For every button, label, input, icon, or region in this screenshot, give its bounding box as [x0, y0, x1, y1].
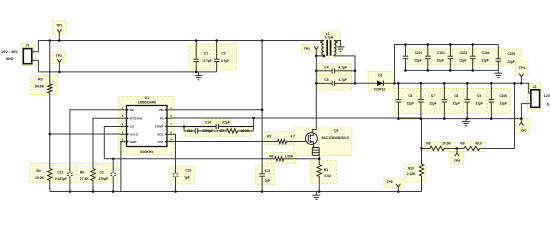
svg-text:TP6: TP6	[386, 180, 392, 184]
junction UVLO divider node	[49, 133, 52, 136]
junction C2 top	[215, 39, 218, 42]
highlight box TP5	[450, 152, 464, 164]
svg-text:R3: R3	[269, 154, 273, 158]
Q1 source pin ladder	[312, 144, 319, 159]
capacitor C14 32pF	[184, 124, 254, 129]
wire bottom ground bus	[50, 191, 422, 193]
pin stub U1 COMP	[167, 126, 174, 128]
junction C102 bottom	[427, 69, 430, 72]
wire row2 ground stem	[465, 119, 467, 122]
test point TP1	[57, 29, 61, 32]
capacitor C1 4.7uF	[193, 41, 199, 72]
svg-text:VIN: VIN	[159, 108, 164, 112]
connector J1	[23, 49, 32, 64]
capacitor C9 22uF	[464, 83, 470, 118]
highlight box C103	[453, 49, 475, 65]
svg-text:10: 10	[170, 138, 173, 142]
svg-text:R6: R6	[80, 171, 84, 175]
svg-text:C13: C13	[187, 129, 193, 133]
pin marker U1 VCC	[164, 133, 167, 136]
junction TP4	[520, 82, 523, 85]
highlight box D1	[368, 71, 394, 91]
svg-text:10V - 48V: 10V - 48V	[1, 50, 18, 54]
svg-text:J2: J2	[533, 85, 537, 89]
test point TP7	[519, 122, 523, 125]
resistor R5 64.9K	[48, 41, 52, 135]
wire input ground stem	[198, 72, 200, 76]
test point TP3	[314, 46, 318, 49]
junction C102 top	[427, 43, 430, 46]
wire RT/SYNC to R6	[93, 118, 120, 168]
capacitor C103 22uF	[448, 45, 454, 71]
junction C100 bottom	[490, 117, 493, 120]
svg-text:64.9K: 64.9K	[35, 85, 45, 89]
wire J1 pin2 to ground rail	[32, 60, 39, 72]
svg-text:CS: CS	[130, 125, 134, 129]
svg-text:C101: C101	[415, 51, 423, 55]
ground at row2	[462, 121, 470, 125]
svg-text:270pF: 270pF	[99, 177, 109, 181]
wire L1 secondary top to ground	[334, 41, 341, 47]
pin stub U1 GND	[120, 141, 127, 143]
capacitor C100 22uF	[489, 83, 495, 118]
wire Vout to J2 pin1	[521, 83, 531, 93]
pin stub U1 SS	[120, 109, 127, 111]
highlight box C3	[97, 164, 118, 183]
highlight box R5	[31, 75, 58, 94]
pin marker U1 UVLO	[127, 133, 130, 136]
svg-text:R10: R10	[408, 167, 414, 171]
svg-text:TP7: TP7	[521, 129, 527, 133]
highlight box C9	[463, 89, 486, 114]
svg-text:4.7µF: 4.7µF	[339, 78, 348, 82]
svg-text:C6: C6	[408, 94, 412, 98]
capacitor C11 1uF on VIN bypass line	[259, 41, 265, 192]
test point TP4	[519, 74, 523, 77]
svg-text:22µF: 22µF	[459, 58, 466, 62]
svg-text:22µF: 22µF	[414, 58, 421, 62]
resistor R10 2.32K	[419, 148, 423, 191]
highlight box TP1	[53, 21, 67, 35]
junction bus x=262.1	[261, 190, 264, 193]
svg-text:C11: C11	[265, 169, 271, 173]
highlight box TP3	[302, 45, 318, 53]
wire output top rail riser	[395, 45, 499, 84]
junction FB divider	[420, 147, 423, 150]
resistor R3 1.00K	[267, 157, 319, 161]
highlight box J1	[22, 44, 35, 66]
svg-text:C103: C103	[459, 51, 467, 55]
svg-text:22µF: 22µF	[482, 58, 489, 62]
svg-text:VCC: VCC	[157, 133, 164, 137]
highlight box C7	[417, 89, 440, 114]
wire TP2 stem	[58, 62, 60, 72]
svg-text:20.0K: 20.0K	[241, 129, 250, 133]
svg-text:TP3: TP3	[304, 47, 310, 51]
wire U1 GND pin to bus	[119, 142, 122, 192]
inductor L1 4.7uH coupled	[322, 41, 324, 55]
svg-text:C10: C10	[185, 169, 191, 173]
junction L1 primary bottom	[323, 55, 326, 58]
svg-text:22µF: 22µF	[437, 58, 444, 62]
svg-text:22µF: 22µF	[500, 102, 507, 106]
junction C101 bottom	[404, 69, 407, 72]
connector J2	[531, 90, 540, 108]
ground at row1	[494, 73, 502, 77]
highlight box TP4	[516, 61, 529, 75]
junction bus x=93.0	[92, 190, 95, 193]
pin marker U1 VIN	[164, 109, 167, 112]
wire L1 secondary bottom to node B	[334, 55, 355, 83]
capacitor C13 4700pF	[184, 128, 222, 133]
svg-text:C7: C7	[431, 94, 435, 98]
svg-text:V10P10: V10P10	[374, 88, 386, 92]
junction TP2 on ground rail	[58, 71, 61, 74]
svg-text:4700pF: 4700pF	[202, 129, 213, 133]
svg-text:TP2: TP2	[56, 54, 62, 58]
test point TP5	[455, 153, 459, 156]
highlight box C105	[501, 49, 522, 65]
junction C4 right	[354, 70, 357, 73]
resistor R9 49.9	[457, 146, 515, 150]
highlight box R10	[404, 165, 425, 182]
svg-text:J1: J1	[26, 44, 30, 48]
wire switch node to Q1 drain	[312, 56, 316, 133]
svg-text:4.7µH: 4.7µH	[325, 36, 334, 40]
svg-text:R4: R4	[36, 169, 40, 173]
test point TP2	[57, 59, 61, 62]
svg-text:COMP: COMP	[155, 125, 164, 129]
svg-text:2.32K: 2.32K	[407, 172, 416, 176]
pin marker U1 RT/SYNC	[127, 117, 130, 120]
junction VIN riser	[261, 109, 264, 112]
junction C4 left	[315, 70, 318, 73]
pin stub U1 OUT	[167, 141, 174, 143]
svg-text:TP4: TP4	[519, 66, 525, 70]
transistor Q1 BSC123N08NS3 G	[306, 133, 318, 145]
svg-text:LM5022MM: LM5022MM	[138, 100, 156, 104]
pin marker U1 CS	[127, 125, 130, 128]
svg-text:4.7µF: 4.7µF	[221, 59, 230, 63]
highlight box R7	[217, 128, 251, 137]
capacitor C5 4.7uF	[316, 81, 355, 86]
wire C3 to bus	[112, 159, 114, 192]
svg-text:4.7µF: 4.7µF	[339, 65, 348, 69]
svg-text:C9: C9	[477, 94, 481, 98]
capacitor C104 22uF	[470, 45, 476, 71]
svg-text:32pF: 32pF	[222, 121, 230, 125]
junction Q1 source R1	[318, 158, 321, 161]
svg-text:C2: C2	[221, 51, 225, 55]
pin stub U1 CS	[120, 126, 127, 128]
junction C103 bottom	[449, 69, 452, 72]
highlight box C14	[203, 120, 231, 128]
svg-text:22µF: 22µF	[476, 102, 483, 106]
wire output ground rail	[398, 118, 521, 120]
highlight box C5	[318, 76, 352, 90]
svg-text:TP5: TP5	[454, 159, 460, 163]
highlight box C11	[255, 165, 274, 184]
junction C101 top	[404, 43, 407, 46]
svg-text:GND: GND	[6, 57, 14, 61]
svg-text:1µF: 1µF	[184, 176, 190, 180]
wire VIN pin to riser	[174, 109, 262, 111]
highlight box C104	[475, 49, 497, 65]
capacitor C7 22uF	[418, 83, 424, 118]
junction J2 ground	[520, 117, 523, 120]
junction R9 output rail	[513, 82, 516, 85]
svg-text:20.0K: 20.0K	[442, 141, 451, 145]
resistor R8 20.0K	[422, 146, 458, 150]
svg-text:C100: C100	[499, 94, 507, 98]
svg-text:C14: C14	[205, 121, 211, 125]
wire TP4 stem	[520, 77, 522, 84]
svg-text:0.02: 0.02	[324, 174, 331, 178]
svg-text:R7: R7	[220, 129, 224, 133]
junction C9 bottom	[466, 117, 469, 120]
junction bus x=175.5	[174, 190, 177, 193]
svg-text:R8: R8	[426, 142, 430, 146]
highlight box C100	[487, 89, 510, 114]
svg-text:D1: D1	[378, 73, 382, 77]
highlight box C6	[394, 89, 417, 114]
svg-text:R9: R9	[460, 142, 464, 146]
svg-text:10.0K: 10.0K	[35, 176, 45, 180]
highlight box TP6	[384, 178, 403, 188]
junction TP3 switch node	[315, 55, 318, 58]
svg-text:C105: C105	[507, 52, 515, 56]
svg-text:UVLO: UVLO	[130, 133, 139, 137]
wire input top rail	[38, 40, 324, 42]
junction C104 bottom	[471, 69, 474, 72]
capacitor C8 22uF	[442, 83, 448, 118]
svg-text:OUT: OUT	[157, 140, 163, 144]
highlight box U1	[119, 96, 175, 154]
highlight box TP2	[53, 52, 67, 64]
svg-text:R1: R1	[324, 168, 328, 172]
junction C100 top	[490, 82, 493, 85]
capacitor C105 22uF	[496, 45, 502, 71]
pin marker U1 SS	[127, 109, 130, 112]
pin marker U1 FB	[164, 117, 167, 120]
wire output rail	[395, 82, 522, 84]
junction TP1 on top rail	[58, 39, 61, 42]
highlight box C10	[170, 166, 195, 184]
wire TP7 stem	[520, 119, 522, 123]
svg-text:G: G	[547, 103, 550, 107]
svg-text:C4: C4	[324, 65, 328, 69]
resistor R6 27.4K	[91, 169, 95, 192]
svg-text:C5: C5	[324, 78, 328, 82]
svg-text:FB: FB	[160, 116, 164, 120]
ground at bus	[312, 195, 320, 199]
highlight box R3	[266, 153, 296, 164]
svg-text:22µF: 22µF	[429, 102, 436, 106]
capacitor C3 270pF	[110, 173, 116, 175]
pin stub U1 FB	[167, 117, 174, 119]
capacitor C102 22uF	[425, 45, 431, 71]
pin stub U1 UVLO	[120, 133, 127, 135]
junction FB compensation	[252, 117, 255, 120]
svg-text:C8: C8	[454, 94, 458, 98]
pin stub U1 VCC	[167, 133, 174, 135]
wire TP3 stem	[315, 49, 317, 56]
diode D1 V10P10	[377, 81, 383, 87]
junction R5 on top rail	[49, 39, 52, 42]
highlight box TP7	[516, 119, 530, 134]
resistor R2 4.7 gate	[174, 139, 306, 143]
junction bus x=398.3	[397, 190, 400, 193]
highlight box C8	[440, 89, 463, 114]
svg-text:22µF: 22µF	[507, 60, 514, 64]
wire comp network to FB	[253, 118, 255, 131]
highlight box R2	[265, 132, 298, 145]
svg-text:0.047µF: 0.047µF	[55, 177, 67, 181]
highlight box R6	[76, 164, 95, 183]
highlight box R8	[424, 142, 455, 151]
capacitor C10 1uF	[173, 174, 179, 176]
svg-text:TP1: TP1	[56, 24, 62, 28]
op-amp U1 LM5022MM body	[127, 106, 168, 147]
junction C9 top	[466, 82, 469, 85]
svg-text:600KHz: 600KHz	[140, 150, 153, 154]
pin stub U1 RT/SYNC	[120, 117, 127, 119]
highlight box C101	[408, 49, 430, 65]
pin marker U1 COMP	[164, 125, 167, 128]
wire CS sense line left part	[104, 158, 267, 160]
junction C8 bottom	[443, 117, 446, 120]
highlight box R4	[30, 164, 53, 183]
resistor R7 20.0K	[222, 129, 254, 133]
junction bus x=113.2	[112, 190, 115, 193]
wire TP1 stem	[58, 33, 60, 41]
svg-text:12V: 12V	[544, 94, 550, 98]
L1 phase dot left	[320, 41, 322, 43]
highlight box C12	[54, 164, 75, 183]
junction C8 top	[443, 82, 446, 85]
wire node B to D1 anode	[355, 82, 377, 84]
capacitor C4 4.7uF	[316, 68, 355, 73]
wire J1 pin1 to top rail	[32, 41, 39, 52]
pin stub U1 VIN	[167, 109, 174, 111]
resistor R4 10.0K	[48, 134, 52, 192]
highlight box Q1	[294, 128, 352, 156]
wire UVLO to U1	[50, 133, 120, 135]
junction VIN riser on top rail	[261, 39, 264, 42]
junction C7 bottom	[420, 117, 423, 120]
wire L1 primary bottom to switch node	[316, 54, 324, 57]
junction node B diode line	[354, 82, 357, 85]
junction C6 bottom	[397, 117, 400, 120]
test point TP6	[396, 184, 400, 187]
svg-text:BSC123N08NS3 G: BSC123N08NS3 G	[322, 136, 350, 140]
wire R9 riser to output rail	[514, 83, 516, 148]
capacitor C6 22uF	[396, 83, 402, 118]
junction bus x=69.9	[69, 190, 72, 193]
svg-text:Q1: Q1	[334, 129, 339, 133]
svg-text:27.4K: 27.4K	[80, 177, 89, 181]
wire CS pin down	[104, 127, 120, 159]
svg-text:C1: C1	[204, 51, 208, 55]
junction C104 top	[471, 43, 474, 46]
highlight box C102	[430, 49, 452, 65]
svg-text:22µF: 22µF	[453, 102, 460, 106]
highlight box C4	[318, 63, 352, 74]
L1 phase dot right	[336, 41, 338, 43]
ground at L1 secondary	[337, 47, 345, 51]
svg-text:C12: C12	[57, 171, 63, 175]
resistor R1 0.02	[317, 159, 321, 192]
wire FB line	[174, 118, 422, 148]
pin marker U1 GND	[127, 140, 130, 143]
svg-text:R5: R5	[38, 78, 42, 82]
wire bus ground stem	[315, 192, 317, 196]
highlight box C2	[214, 44, 237, 70]
highlight box L1	[321, 32, 340, 58]
wire COMP pin	[174, 126, 184, 128]
wire TP5 stem	[456, 148, 458, 153]
highlight box J2	[527, 83, 541, 111]
junction C1 bottom	[195, 71, 198, 74]
wire row1 mid rail	[405, 69, 498, 71]
junction C103 top	[449, 43, 452, 46]
capacitor C101 22uF	[403, 45, 409, 71]
svg-text:C102: C102	[437, 51, 445, 55]
L1 core	[327, 40, 330, 56]
wire row1 ground stem	[497, 70, 499, 73]
svg-text:4.7µF: 4.7µF	[203, 59, 212, 63]
svg-text:1µF: 1µF	[265, 178, 271, 182]
highlight box C1	[189, 44, 211, 70]
svg-text:49.9: 49.9	[475, 141, 482, 145]
svg-text:C104: C104	[482, 51, 490, 55]
wire input ground rail	[38, 71, 216, 73]
junction C6 top	[397, 82, 400, 85]
capacitor C2 4.7uF	[214, 41, 220, 72]
wire SS to C12	[70, 110, 120, 192]
svg-text:GND: GND	[130, 140, 136, 144]
svg-text:C3: C3	[99, 171, 103, 175]
junction bus x=319.2	[318, 190, 321, 193]
highlight box C13	[184, 128, 217, 137]
junction COMP split	[183, 125, 186, 128]
ground at input rail	[195, 75, 203, 79]
junction C7 top	[420, 82, 423, 85]
wire D1 cathode to output node	[383, 82, 394, 84]
wire TP6 stem	[397, 187, 399, 192]
capacitor C12 0.047uF	[67, 173, 73, 175]
highlight box R1	[311, 161, 337, 184]
svg-text:1.00K: 1.00K	[285, 154, 294, 158]
junction TP5	[456, 147, 459, 150]
highlight box R9	[463, 142, 486, 151]
wire VCC to C10	[174, 134, 176, 191]
wire J2 pin2 to ground rail	[521, 104, 531, 119]
svg-text:22µF: 22µF	[407, 102, 414, 106]
pin marker U1 OUT	[164, 140, 167, 143]
svg-text:SS: SS	[130, 108, 134, 112]
junction C3 tap on CS line	[112, 158, 115, 161]
svg-text:R2: R2	[267, 135, 271, 139]
junction output node	[393, 82, 396, 85]
wire COMP to lower branch	[183, 127, 185, 131]
junction C5 left	[315, 82, 318, 85]
junction C1 top	[195, 39, 198, 42]
svg-text:4.7: 4.7	[290, 135, 295, 139]
svg-text:RT/SYNC: RT/SYNC	[130, 116, 144, 120]
